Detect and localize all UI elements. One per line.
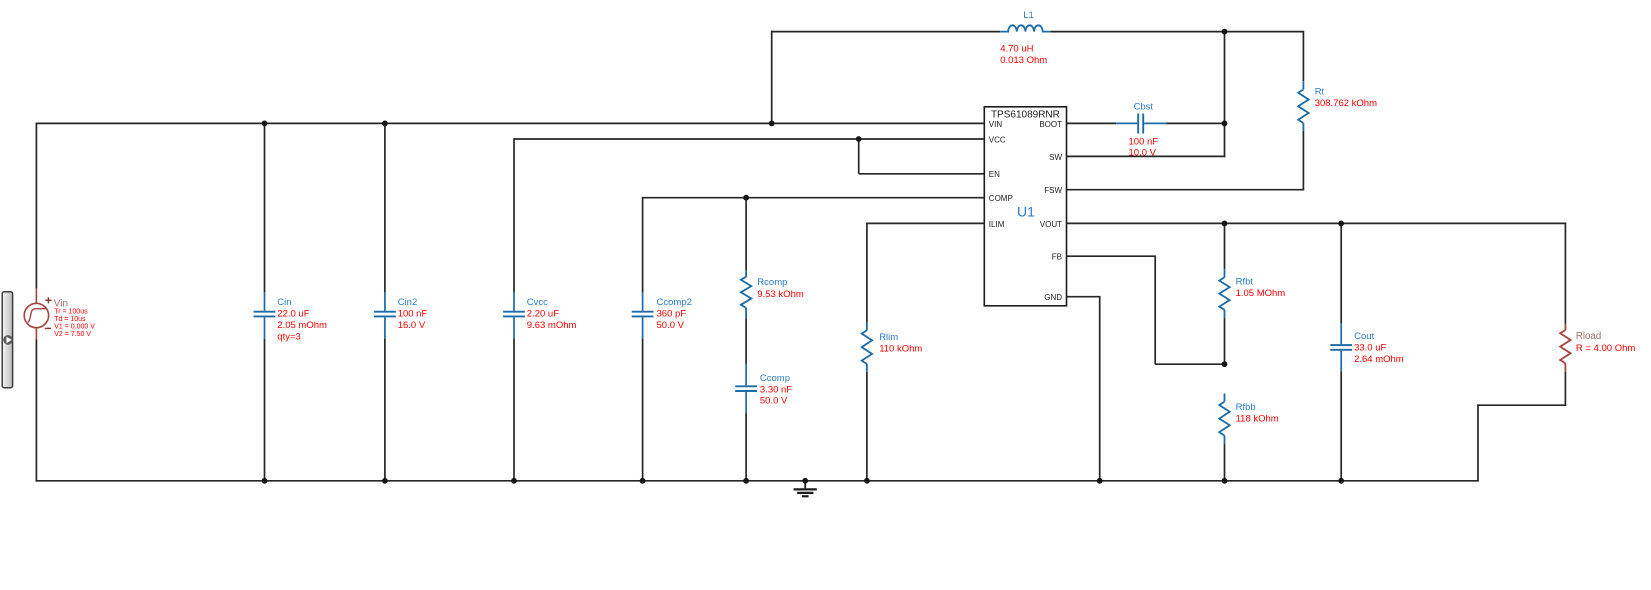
- Vin plus sign: [45, 297, 51, 303]
- wire BOOT to Cbst: [1067, 122, 1117, 124]
- capacitor Cout: [1330, 323, 1352, 372]
- svg-text:COMP: COMP: [989, 194, 1013, 203]
- wire Cin branch upper: [264, 123, 266, 292]
- junction rail-Cvcc: [511, 478, 517, 484]
- wire Cbst to SW riser: [1166, 122, 1224, 124]
- wire VCC horizontal: [514, 138, 984, 140]
- svg-text:EN: EN: [989, 170, 1000, 179]
- wire GND horizontal: [1067, 296, 1101, 298]
- wire GND vertical: [1099, 297, 1101, 481]
- svg-text:BOOT: BOOT: [1039, 120, 1062, 129]
- svg-text:Rlim: Rlim: [879, 332, 898, 343]
- wire Rt branch upper: [1302, 32, 1304, 82]
- wire Cin2 branch upper: [384, 123, 386, 292]
- svg-text:10.0 V: 10.0 V: [1129, 148, 1157, 159]
- wire Rlim branch upper: [866, 223, 868, 323]
- resistor Rcomp: [741, 270, 751, 318]
- svg-text:100 nF: 100 nF: [1129, 136, 1159, 147]
- junction VIN-Cin2: [382, 121, 388, 127]
- wire Rfbt to Rfbb: [1224, 318, 1226, 364]
- svg-text:Rload: Rload: [1576, 331, 1601, 342]
- capacitor Ccomp2: [632, 292, 654, 339]
- resistor Rlim: [862, 322, 872, 371]
- svg-text:9.63 mOhm: 9.63 mOhm: [527, 320, 577, 331]
- inductor L1: [1000, 25, 1050, 31]
- svg-text:4.70 uH: 4.70 uH: [1000, 44, 1033, 55]
- wire Rfbt branch upper: [1224, 223, 1226, 269]
- wire Cout branch lower: [1340, 372, 1342, 481]
- svg-text:VCC: VCC: [989, 135, 1006, 144]
- junction VIN-L1 branch: [769, 121, 775, 127]
- svg-text:2.20 uF: 2.20 uF: [527, 308, 559, 319]
- junction VOUT-Cout: [1338, 221, 1344, 227]
- wire left vertical above Vin source: [35, 123, 37, 289]
- svg-text:Rt: Rt: [1315, 87, 1325, 98]
- svg-text:308.762 kOhm: 308.762 kOhm: [1315, 98, 1377, 109]
- resistor Rfbt: [1219, 269, 1229, 318]
- junction rail-Rlim: [864, 478, 870, 484]
- svg-text:Ccomp: Ccomp: [760, 373, 790, 384]
- svg-text:L1: L1: [1023, 10, 1034, 21]
- wire Cvcc branch upper: [513, 138, 515, 292]
- wire Cin2 branch lower: [384, 339, 386, 481]
- svg-text:VOUT: VOUT: [1040, 220, 1062, 229]
- svg-text:FSW: FSW: [1044, 186, 1062, 195]
- svg-text:9.53 kOhm: 9.53 kOhm: [757, 289, 804, 300]
- svg-text:Ccomp2: Ccomp2: [657, 297, 692, 308]
- svg-text:33.0 uF: 33.0 uF: [1354, 342, 1386, 353]
- slider widget: [2, 292, 13, 388]
- wire top rail left of L1: [771, 31, 1000, 33]
- svg-text:U1: U1: [1017, 203, 1035, 219]
- Vin minus sign: [45, 327, 51, 329]
- resistor Rt: [1298, 81, 1308, 131]
- wire Rcomp branch upper: [745, 198, 747, 271]
- wire Ccomp branch lower: [745, 414, 747, 481]
- wire Cin branch lower: [264, 339, 266, 481]
- svg-text:Rfbt: Rfbt: [1236, 276, 1254, 287]
- svg-text:Cvcc: Cvcc: [527, 297, 548, 308]
- junction rail-GND pin: [1097, 478, 1103, 484]
- svg-text:Rcomp: Rcomp: [757, 277, 787, 288]
- svg-text:GND: GND: [1044, 293, 1062, 302]
- wire Rt branch lower: [1302, 131, 1304, 191]
- junction rail-Cin: [262, 478, 268, 484]
- capacitor Cin: [254, 292, 276, 339]
- svg-text:0.013 Ohm: 0.013 Ohm: [1000, 55, 1047, 66]
- wire SW riser: [1224, 32, 1226, 158]
- wire top rail right of L1: [1050, 31, 1304, 33]
- wire VOUT horizontal: [1067, 222, 1567, 224]
- wire ILIM horizontal: [867, 222, 984, 224]
- capacitor Cin2: [374, 292, 396, 339]
- wire FSW horizontal: [1067, 189, 1305, 191]
- svg-text:110 kOhm: 110 kOhm: [879, 343, 922, 354]
- wire ground rail (bottom horizontal): [36, 480, 1478, 482]
- svg-text:Td = 10us: Td = 10us: [54, 316, 86, 323]
- wire EN horizontal: [859, 173, 985, 175]
- svg-text:2.05 mOhm: 2.05 mOhm: [277, 320, 327, 331]
- svg-text:R = 4.00 Ohm: R = 4.00 Ohm: [1576, 343, 1635, 354]
- wire Rload branch upper: [1564, 223, 1566, 324]
- svg-text:50.0 V: 50.0 V: [657, 320, 685, 331]
- junction FB-divider: [1222, 361, 1228, 367]
- junction COMP-Rcomp: [743, 195, 749, 201]
- capacitor Ccomp: [735, 364, 757, 414]
- junction BOOT-Cbst-SW: [1222, 121, 1228, 127]
- wire SW horizontal: [1067, 155, 1226, 157]
- svg-text:Tr = 100us: Tr = 100us: [54, 308, 88, 315]
- wire Cvcc branch lower: [513, 339, 515, 481]
- wire L1 branch vertical: [771, 31, 773, 124]
- capacitor Cvcc: [503, 292, 525, 339]
- wire COMP horizontal: [643, 197, 985, 199]
- wire Rload branch lower: [1564, 372, 1566, 406]
- junction VIN-Cin: [262, 121, 268, 127]
- wire load return vertical: [1477, 404, 1479, 481]
- wire Rfbb branch lower: [1224, 443, 1226, 481]
- wire Rlim branch lower: [866, 372, 868, 481]
- svg-text:1.05 MOhm: 1.05 MOhm: [1236, 288, 1286, 299]
- svg-text:118 kOhm: 118 kOhm: [1236, 414, 1279, 425]
- svg-text:qty=3: qty=3: [277, 331, 301, 342]
- svg-text:Cin: Cin: [277, 297, 291, 308]
- wire FB vertical: [1154, 256, 1156, 364]
- capacitor Cbst: [1116, 114, 1166, 134]
- svg-text:SW: SW: [1049, 153, 1062, 162]
- wire EN branch vertical: [858, 139, 860, 174]
- junction rail-Ccomp2: [640, 478, 646, 484]
- op-amp U1 TPS61089RNR box: [984, 107, 1066, 306]
- wire FB to divider: [1155, 363, 1224, 365]
- svg-text:Cin2: Cin2: [398, 297, 418, 308]
- svg-text:Cout: Cout: [1354, 331, 1374, 342]
- wire Ccomp2 branch upper: [642, 197, 644, 293]
- svg-text:3.30 nF: 3.30 nF: [760, 384, 792, 395]
- wire Ccomp2 branch lower: [642, 339, 644, 481]
- svg-text:FB: FB: [1052, 253, 1062, 262]
- svg-text:V1 = 0.000 V: V1 = 0.000 V: [54, 323, 95, 330]
- wire load return horizontal: [1477, 404, 1566, 406]
- svg-text:Rfbb: Rfbb: [1236, 402, 1256, 413]
- svg-text:22.0 uF: 22.0 uF: [277, 308, 309, 319]
- junction top rail-SW riser: [1222, 29, 1228, 35]
- voltage source Vin: [24, 289, 48, 339]
- resistor Rfbb: [1219, 394, 1229, 444]
- svg-text:360 pF: 360 pF: [657, 308, 687, 319]
- svg-text:V2 = 7.50 V: V2 = 7.50 V: [54, 331, 91, 338]
- junction rail-Cin2: [382, 478, 388, 484]
- wire FB horizontal: [1067, 255, 1157, 257]
- wire Rcomp to Ccomp: [745, 318, 747, 364]
- junction rail-Ccomp: [743, 478, 749, 484]
- svg-text:100 nF: 100 nF: [398, 308, 428, 319]
- resistor Rload: [1560, 324, 1570, 372]
- wire Cout branch upper: [1340, 223, 1342, 323]
- svg-text:Cbst: Cbst: [1134, 101, 1154, 112]
- ground: [794, 481, 817, 497]
- wire left vertical below Vin source: [35, 339, 37, 481]
- svg-text:VIN: VIN: [989, 120, 1003, 129]
- junction rail-ground: [802, 478, 808, 484]
- svg-text:2.64 mOhm: 2.64 mOhm: [1354, 354, 1404, 365]
- svg-text:16.0 V: 16.0 V: [398, 320, 426, 331]
- junction rail-Rfbb: [1222, 478, 1228, 484]
- junction VCC-EN: [856, 136, 862, 142]
- svg-text:50.0 V: 50.0 V: [760, 396, 788, 407]
- wire VIN rail (top-left horizontal): [36, 122, 984, 124]
- junction VOUT-Rfbt: [1222, 221, 1228, 227]
- svg-text:ILIM: ILIM: [989, 220, 1005, 229]
- junction rail-Cout: [1338, 478, 1344, 484]
